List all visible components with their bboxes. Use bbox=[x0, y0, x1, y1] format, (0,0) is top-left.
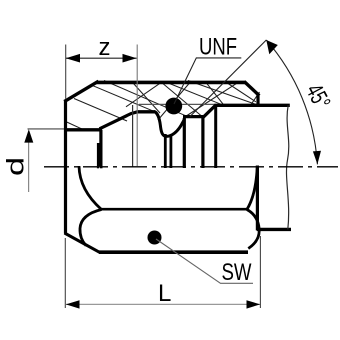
hatch line G1 bbox=[186, 82, 239, 116]
svg-text:L: L bbox=[158, 280, 171, 307]
pipe bottom line bbox=[257, 228, 291, 231]
hatch line E2 bbox=[158, 82, 190, 120]
dimension L: line bbox=[66, 303, 260, 305]
step right vertical v4 bbox=[201, 116, 204, 169]
bore taper cone bbox=[100, 112, 138, 129]
L arrow right bbox=[247, 300, 261, 308]
hatch line S0 bbox=[133, 82, 161, 113]
step left vertical v3 bbox=[183, 118, 186, 168]
UNF callout dot bbox=[165, 98, 182, 115]
45deg reference line bbox=[190, 40, 266, 117]
dimension d: extension line bbox=[28, 128, 65, 130]
hatch line S2 bbox=[206, 82, 224, 105]
step plateau bbox=[183, 115, 205, 118]
hatch line B2 bbox=[92, 85, 155, 112]
hatch line F2 bbox=[167, 83, 222, 105]
UNF leader bbox=[174, 58, 241, 104]
seat dip curve bbox=[154, 112, 184, 137]
top-left chamfer bbox=[64, 81, 98, 101]
hatch line A' bbox=[65, 121, 84, 130]
bottom flat bbox=[99, 250, 248, 254]
hatch line A bbox=[74, 99, 127, 122]
45deg arc arrow top bbox=[266, 40, 278, 54]
centerline (dash-dot) bbox=[44, 166, 338, 168]
thread root line bbox=[137, 110, 156, 113]
hatching of nut section (upper half) bbox=[65, 81, 260, 130]
SW leader bbox=[156, 239, 253, 283]
lower flat right chamfer arc bbox=[247, 210, 259, 249]
hatch line D1 bbox=[104, 81, 187, 117]
right face upper (section) bbox=[256, 94, 259, 107]
thread end thin vertical bbox=[132, 105, 134, 167]
bottom-left bevel bbox=[65, 233, 101, 253]
inner short vertical bbox=[97, 143, 100, 168]
hatch line S1 bbox=[162, 82, 203, 116]
hex edge line bbox=[101, 208, 248, 211]
hatch line E1 bbox=[126, 83, 161, 107]
top flat bbox=[97, 81, 246, 85]
hatch line G2 bbox=[251, 92, 260, 105]
tube end vertical bbox=[214, 105, 217, 168]
bore line y=130 bbox=[64, 128, 102, 131]
thread crest thin line bbox=[139, 103, 215, 105]
pipe top line bbox=[215, 104, 290, 107]
dimension z: extension lines bbox=[65, 45, 67, 100]
upper flat right chamfer arc bbox=[247, 166, 257, 210]
counterbore vertical bbox=[99, 130, 102, 169]
svg-text:d: d bbox=[3, 157, 30, 176]
svg-text:SW: SW bbox=[222, 259, 252, 286]
upper flat left chamfer arc bbox=[79, 166, 102, 210]
dimension z: line bbox=[66, 57, 137, 59]
pipe break line (wavy) bbox=[286, 105, 288, 229]
lower flat left chamfer arc bbox=[80, 210, 102, 246]
tube flare chamfer bbox=[203, 105, 216, 117]
svg-text:z: z bbox=[99, 34, 111, 61]
bore edge v2 bbox=[169, 136, 172, 169]
dimension L: extension lines bbox=[64, 238, 66, 308]
right face lower (exterior) bbox=[256, 166, 259, 231]
top-right chamfer bbox=[244, 82, 259, 96]
z arrow left bbox=[66, 54, 80, 63]
SW callout dot bbox=[148, 231, 162, 245]
d arrow line bbox=[28, 131, 30, 192]
z arrow right bbox=[123, 54, 137, 63]
bore edge v1 bbox=[164, 134, 167, 168]
45deg arc bbox=[266, 40, 317, 164]
L arrow left bbox=[66, 300, 80, 308]
45deg arc arrow bottom bbox=[313, 151, 321, 165]
svg-text:UNF: UNF bbox=[199, 34, 237, 61]
outer profile: left face bbox=[64, 100, 67, 234]
hatch line F1 bbox=[188, 81, 257, 105]
d arrow head bbox=[24, 129, 33, 142]
hatch line H1 bbox=[225, 82, 256, 102]
